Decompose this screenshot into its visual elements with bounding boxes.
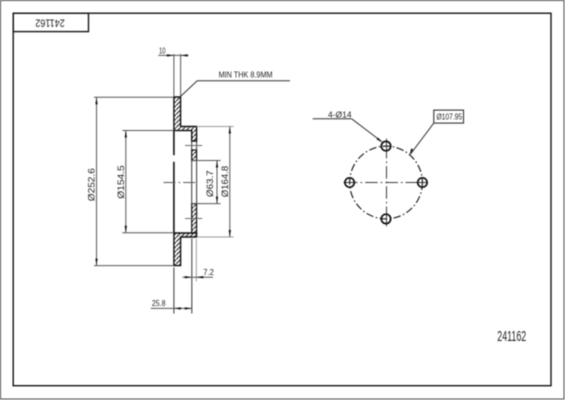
svg-text:Ø252.6: Ø252.6 xyxy=(87,168,97,201)
label 4-D14: underline xyxy=(313,118,352,120)
dimension D63.7: bottom extension line xyxy=(192,203,221,205)
dimension 7.2: gray outer extension line xyxy=(195,239,197,281)
dimension 7.2 / 25.8: shared inner extension line xyxy=(191,239,193,314)
dimension D252.6: bottom extension line xyxy=(94,265,174,267)
dimension D164.8: dimension line xyxy=(229,127,231,238)
title box xyxy=(13,13,88,31)
svg-text:4-Ø14: 4-Ø14 xyxy=(328,109,352,119)
svg-text:MIN THK 8.9MM: MIN THK 8.9MM xyxy=(219,69,273,79)
section: wall inner edge through bolt hole gap xyxy=(191,141,193,150)
dimension D63.7: dimension line xyxy=(216,161,218,204)
MIN THK leader line xyxy=(181,81,290,97)
label D107.95: arrowhead xyxy=(409,148,413,155)
dimension 10: right extension line xyxy=(180,54,182,96)
dimension D164.8: bottom extension line xyxy=(197,236,234,238)
dimension D63.7: top extension line xyxy=(192,160,221,162)
svg-text:7.2: 7.2 xyxy=(203,267,214,277)
dimension 25.8: left arrow xyxy=(174,307,181,309)
section: upper bolt hole centerline xyxy=(185,145,202,147)
section: wall outer edge through center hole xyxy=(196,161,198,204)
dimension D154.5: top arrow xyxy=(125,131,127,138)
dimension 10: right arrow xyxy=(181,54,188,56)
label 4-D14: arrowhead xyxy=(377,137,383,142)
section: hatched top L (friction ring + hat step) xyxy=(174,97,197,141)
hub view: bottom bolt hole xyxy=(381,214,390,223)
dimension D63.7: bottom arrow xyxy=(216,197,218,204)
dimension D154.5: top extension line xyxy=(122,130,173,132)
dimension D154.5: bottom extension line xyxy=(122,232,173,234)
dimension 25.8: left extension line xyxy=(173,268,175,314)
dimension D154.5: bottom arrow xyxy=(125,226,127,233)
dimension 7.2: right arrow xyxy=(196,276,203,278)
dimension 25.8: right arrow xyxy=(185,307,192,309)
section: wall inner edge through center hole xyxy=(191,161,193,204)
dimension D164.8: top extension line xyxy=(197,126,234,128)
hub view: left bolt hole xyxy=(345,178,354,187)
section: central axis centerline xyxy=(164,182,198,184)
svg-text:241162: 241162 xyxy=(497,329,526,345)
svg-text:10: 10 xyxy=(159,46,166,55)
hub view: vertical centerline xyxy=(386,139,388,159)
section: hatched wall segment below center hole xyxy=(192,204,197,233)
label D107.95: leader diagonal xyxy=(411,123,434,154)
dimension D164.8: bottom arrow xyxy=(229,230,231,237)
section: lower bolt hole centerline xyxy=(185,218,202,220)
label D107.95: box xyxy=(434,110,464,123)
svg-text:Ø107.95: Ø107.95 xyxy=(436,112,462,122)
dimension D252.6: top arrow xyxy=(95,97,97,104)
dimension D252.6: top extension line xyxy=(94,96,174,98)
section: outboard face line lower segment xyxy=(173,162,175,233)
hub view: top bolt hole xyxy=(381,141,390,150)
dimension 7.2: left arrow xyxy=(185,276,192,278)
dimension D63.7: top arrow xyxy=(216,161,218,168)
hub view: bolt circle (dash-dot) xyxy=(350,146,423,219)
svg-text:241162: 241162 xyxy=(35,16,64,28)
dimension D252.6: dimension line xyxy=(96,97,98,265)
section: hatched bottom L (hat step + friction ring) xyxy=(174,233,197,266)
dimension D164.8: top arrow xyxy=(229,127,231,134)
dimension 25.8: dimension line xyxy=(151,307,192,309)
dimension 10: left extension line xyxy=(173,54,175,96)
dimension D154.5: dimension line xyxy=(125,131,127,233)
section: outboard face line upper segment xyxy=(173,131,175,156)
dimension D252.6: bottom arrow xyxy=(95,259,97,266)
hub view: horizontal centerline xyxy=(344,182,358,184)
label 4-D14: leader diagonal xyxy=(352,119,382,142)
dimension 7.2: dimension line xyxy=(183,276,214,278)
dimension 10: dimension line xyxy=(158,54,188,56)
svg-text:Ø63.7: Ø63.7 xyxy=(205,170,215,197)
svg-text:Ø154.5: Ø154.5 xyxy=(116,165,126,199)
dimension 10: left arrow xyxy=(167,54,174,56)
svg-text:25.8: 25.8 xyxy=(152,298,166,308)
section: hatched wall segment between bolt hole and center hole xyxy=(192,150,197,161)
section: wall outer edge through bolt hole gap xyxy=(196,141,198,150)
hub view: right bolt hole xyxy=(418,178,427,187)
svg-text:Ø164.8: Ø164.8 xyxy=(220,166,230,198)
